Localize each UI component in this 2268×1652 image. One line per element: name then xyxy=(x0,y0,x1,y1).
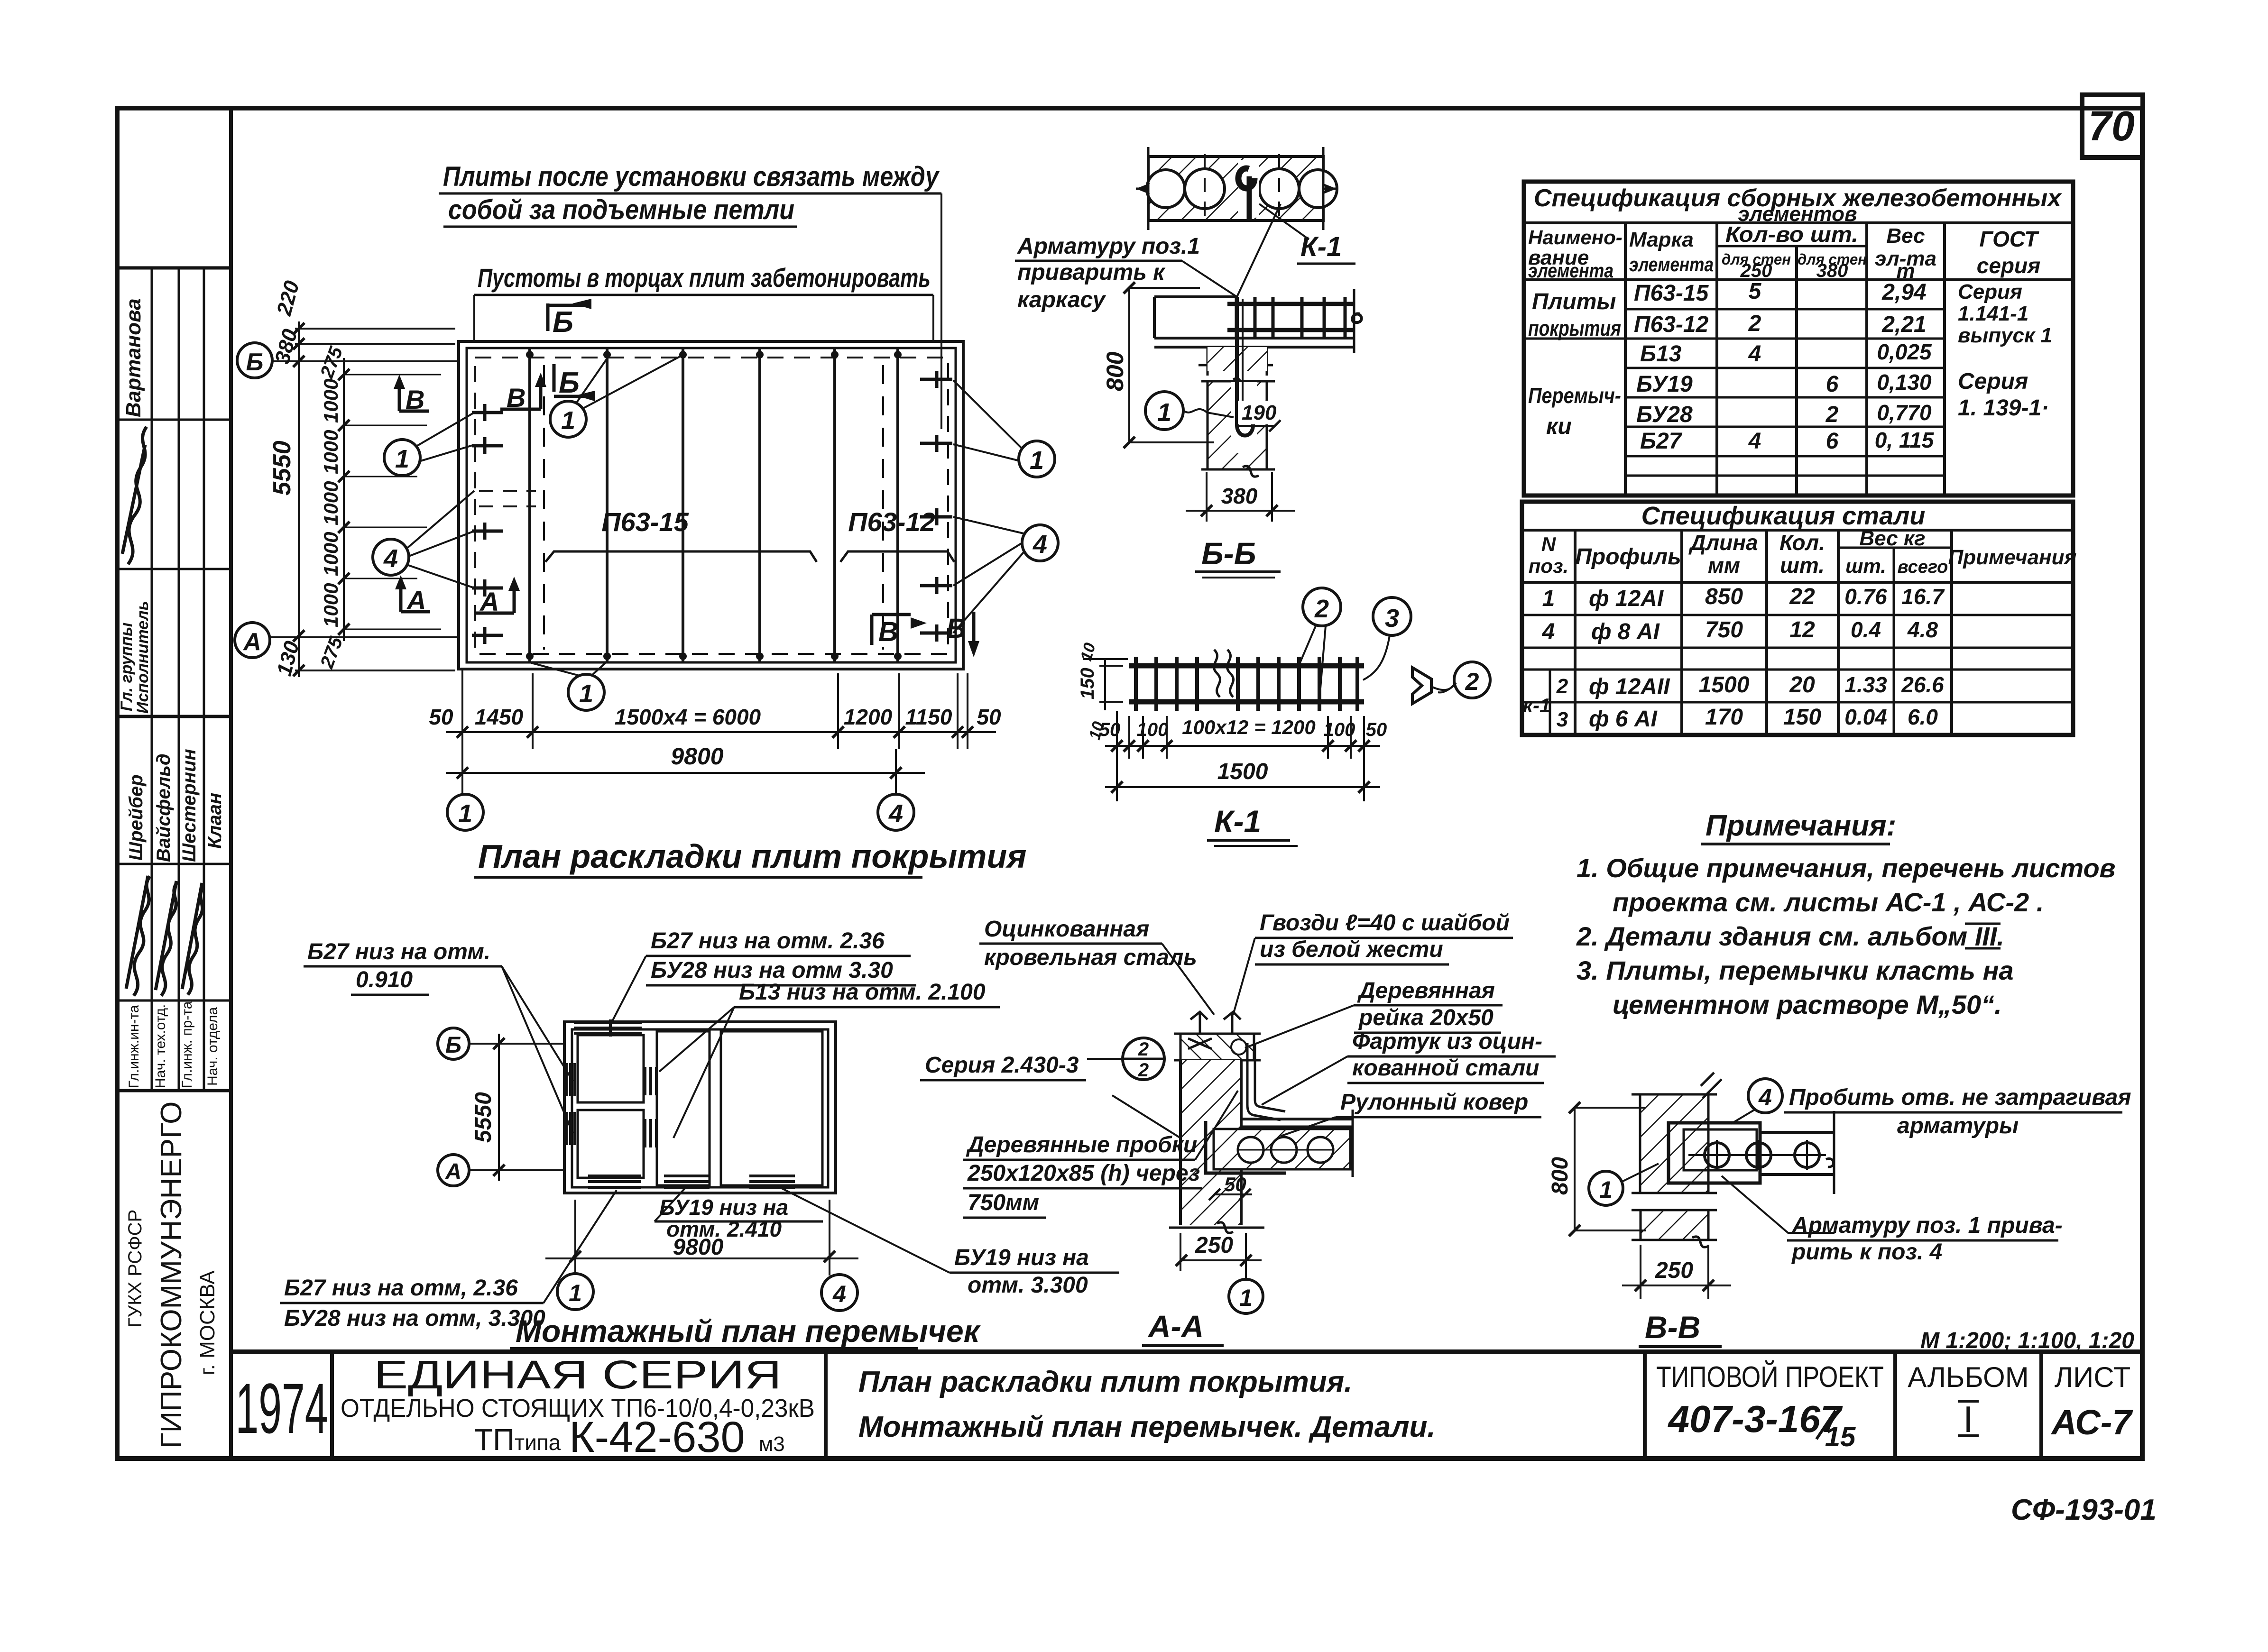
dim 5550 xyxy=(498,1034,500,1181)
wall under slab upper stub xyxy=(1199,347,1273,376)
svg-text:Б-Б: Б-Б xyxy=(1201,536,1256,571)
svg-text:Кол.: Кол. xyxy=(1779,530,1825,555)
svg-text:170: 170 xyxy=(1705,705,1743,730)
clip piece right xyxy=(1412,668,1431,704)
wall lower xyxy=(1641,1210,1708,1240)
svg-text:Примечания: Примечания xyxy=(1948,546,2077,569)
svg-text:Профиль: Профиль xyxy=(1575,544,1681,569)
svg-text:4: 4 xyxy=(888,799,903,828)
svg-text:Клаан: Клаан xyxy=(204,793,225,849)
svg-text:Пустоты в торцах плит забе: Пустоты в торцах плит забетонировать xyxy=(478,263,931,293)
svg-text:800: 800 xyxy=(1548,1157,1573,1195)
svg-text:Серия: Серия xyxy=(1958,369,2028,394)
document code xyxy=(2011,1494,2157,1526)
axis circle 4 bottom xyxy=(878,794,914,830)
text weld rebar pos1 xyxy=(1015,204,1281,312)
circle 1 leader xyxy=(1145,392,1183,430)
leader circle 3 xyxy=(1373,597,1411,635)
svg-text:4: 4 xyxy=(1758,1084,1772,1111)
svg-text:4: 4 xyxy=(1033,530,1047,559)
axis circle 1 bottom xyxy=(447,794,483,830)
stamp column divider xyxy=(229,108,233,1459)
slab label П63-12 xyxy=(840,507,954,562)
svg-text:1000: 1000 xyxy=(320,532,342,576)
section mark А left outer xyxy=(395,575,430,615)
svg-text:4: 4 xyxy=(832,1281,846,1307)
svg-text:АС-7: АС-7 xyxy=(2051,1403,2134,1442)
bottom dim chain xyxy=(429,669,1001,793)
svg-text:2: 2 xyxy=(1138,1039,1149,1060)
svg-text:1974: 1974 xyxy=(236,1368,328,1448)
svg-text:План раскладки плит покрыти: План раскладки плит покрытия xyxy=(478,838,1026,875)
svg-text:Б27 низ на отм. 2.36: Б27 низ на отм. 2.36 xyxy=(651,928,885,954)
svg-text:750мм: 750мм xyxy=(968,1190,1039,1215)
svg-text:Б27 низ на отм, 2.36: Б27 низ на отм, 2.36 xyxy=(284,1276,518,1301)
anchor hooks right edge xyxy=(920,371,952,642)
svg-text:1000: 1000 xyxy=(320,481,342,525)
svg-text:26.6: 26.6 xyxy=(1901,672,1944,697)
svg-text:поз.: поз. xyxy=(1529,555,1568,577)
svg-text:м3: м3 xyxy=(759,1432,785,1456)
svg-text:к-1: к-1 xyxy=(1523,694,1551,716)
svg-text:Нач. тех.отд.: Нач. тех.отд. xyxy=(153,1004,168,1088)
flashing L xyxy=(1247,1043,1285,1120)
svg-text:2: 2 xyxy=(1314,595,1329,623)
svg-text:План раскладки плит покрыти: План раскладки плит покрытия. xyxy=(858,1366,1352,1398)
svg-text:Б13: Б13 xyxy=(1640,341,1682,367)
svg-text:кованной стали: кованной стали xyxy=(1352,1055,1540,1081)
svg-text:ГОСТ: ГОСТ xyxy=(1980,227,2040,251)
svg-text:Б13 низ на отм. 2.100: Б13 низ на отм. 2.100 xyxy=(739,980,986,1005)
svg-text:1: 1 xyxy=(1030,446,1044,475)
svg-text:Спецификация стали: Спецификация стали xyxy=(1641,502,1926,530)
svg-text:5: 5 xyxy=(1749,279,1762,304)
svg-text:ф 12АII: ф 12АII xyxy=(1589,674,1670,699)
montage plan of lintels xyxy=(438,1019,981,1349)
svg-text:3: 3 xyxy=(1385,604,1399,633)
svg-text:элемента: элемента xyxy=(1629,253,1714,275)
title block xyxy=(231,1352,2142,1461)
svg-text:Монтажный план перемычек. Д: Монтажный план перемычек. Детали. xyxy=(858,1411,1436,1443)
sheet number box 70 xyxy=(2082,95,2143,157)
svg-text:Наимено-: Наимено- xyxy=(1528,226,1623,248)
K-1 label at B-B xyxy=(1259,204,1355,264)
specification table concrete elements xyxy=(1524,182,2073,496)
svg-text:250х120х85 (h) через: 250х120х85 (h) через xyxy=(967,1161,1200,1186)
left small dims 10 150 10 xyxy=(1104,659,1106,710)
svg-text:Оцинкованная: Оцинкованная xyxy=(984,917,1149,942)
svg-text:1: 1 xyxy=(1599,1176,1613,1203)
svg-text:АЛЬБОМ: АЛЬБОМ xyxy=(1908,1361,2028,1393)
row lines xyxy=(1625,308,1945,311)
svg-text:100х12 = 1200: 100х12 = 1200 xyxy=(1182,716,1315,738)
leader circle 4 right xyxy=(953,517,1058,633)
axis circles 1 4 xyxy=(557,1274,593,1310)
leader circle 1 left xyxy=(384,413,474,476)
break mark xyxy=(1214,650,1233,697)
svg-text:серия: серия xyxy=(1977,253,2040,278)
svg-text:150: 150 xyxy=(1783,705,1821,730)
svg-text:1. Общие примечания, перече: 1. Общие примечания, перечень листов xyxy=(1577,853,2116,883)
svg-text:Деревянная: Деревянная xyxy=(1357,978,1495,1003)
section mark В bottom right outer xyxy=(946,612,979,657)
svg-text:1. 139-1·: 1. 139-1· xyxy=(1958,395,2049,421)
svg-text:отм. 3.300: отм. 3.300 xyxy=(968,1273,1088,1298)
stamp table grid xyxy=(117,268,231,1091)
svg-text:0,770: 0,770 xyxy=(1877,400,1932,425)
svg-text:цементном растворе М„50“.: цементном растворе М„50“. xyxy=(1613,990,2002,1019)
A-A detail xyxy=(1087,1012,1353,1351)
section mark Б top xyxy=(548,299,591,339)
svg-text:2: 2 xyxy=(1465,668,1479,696)
svg-text:2: 2 xyxy=(1138,1060,1149,1081)
dim 1500 xyxy=(1105,786,1380,788)
svg-text:отм. 2.410: отм. 2.410 xyxy=(666,1217,782,1241)
section B-B slab plan band xyxy=(1136,147,1337,230)
svg-text:ф 12АI: ф 12АI xyxy=(1589,586,1664,611)
columns xyxy=(1574,530,1577,735)
axis circle 1 xyxy=(1229,1279,1263,1313)
V-V detail xyxy=(1548,1073,2131,1352)
svg-text:0.04: 0.04 xyxy=(1844,705,1887,729)
svg-text:Б27: Б27 xyxy=(1640,429,1683,454)
A-A labels xyxy=(920,910,1556,1218)
svg-text:выпуск 1: выпуск 1 xyxy=(1958,324,2052,347)
svg-text:ки: ки xyxy=(1546,414,1572,439)
svg-text:каркасу: каркасу xyxy=(1017,287,1106,312)
dashed slab mark lines xyxy=(543,365,545,650)
svg-text:собой за подъемные петли: собой за подъемные петли xyxy=(448,194,794,225)
svg-text:22: 22 xyxy=(1789,584,1815,609)
section mark В bottom right inner xyxy=(872,615,927,647)
svg-text:Исполнитель: Исполнитель xyxy=(134,601,152,714)
wall notch step xyxy=(1206,1121,1286,1173)
svg-text:Нач. отдела: Нач. отдела xyxy=(205,1007,221,1086)
svg-text:П63-12: П63-12 xyxy=(1634,312,1709,337)
rows xyxy=(1522,614,2073,616)
svg-text:1: 1 xyxy=(1157,398,1171,427)
svg-text:250: 250 xyxy=(1740,260,1772,281)
leader circle 1 right xyxy=(953,380,1055,477)
svg-text:П63-12: П63-12 xyxy=(848,507,935,537)
svg-text:4: 4 xyxy=(1748,341,1761,367)
leader circle 1 bottom xyxy=(531,661,607,710)
svg-text:1: 1 xyxy=(1542,586,1555,611)
axis circle Б xyxy=(237,343,459,378)
dim 250 xyxy=(1640,1245,1641,1299)
svg-text:12: 12 xyxy=(1789,617,1815,642)
svg-text:0.910: 0.910 xyxy=(356,967,413,992)
svg-text:50: 50 xyxy=(429,705,453,729)
svg-text:А: А xyxy=(445,1159,462,1184)
K-1 split xyxy=(1549,670,1551,735)
anchor pocket white strip xyxy=(1231,382,1257,453)
svg-text:380: 380 xyxy=(1221,484,1258,508)
svg-text:250: 250 xyxy=(1655,1258,1693,1283)
svg-text:Серия 2.430-3: Серия 2.430-3 xyxy=(925,1053,1079,1078)
svg-text:БУ28: БУ28 xyxy=(1636,402,1693,427)
svg-text:15: 15 xyxy=(1825,1422,1856,1452)
plan title xyxy=(474,838,1026,877)
svg-text:1500х4 = 6000: 1500х4 = 6000 xyxy=(615,705,761,729)
svg-text:Вайсфельд: Вайсфельд xyxy=(153,753,174,862)
svg-text:всего: всего xyxy=(1898,557,1948,577)
svg-text:Монтажный план перемычек: Монтажный план перемычек xyxy=(516,1313,981,1349)
svg-text:70: 70 xyxy=(2088,102,2135,149)
svg-text:К-42-630: К-42-630 xyxy=(569,1413,745,1461)
svg-text:Б: Б xyxy=(559,367,580,399)
axis circles xyxy=(438,1028,469,1059)
svg-text:250: 250 xyxy=(1195,1233,1233,1258)
leader circle 2 right xyxy=(1454,662,1490,698)
svg-text:50: 50 xyxy=(1099,719,1121,740)
slab band hatched with cores xyxy=(1214,1129,1350,1169)
slab body xyxy=(1154,297,1354,347)
svg-text:190: 190 xyxy=(1242,401,1277,424)
svg-text:Плиты после установки связа: Плиты после установки связать между xyxy=(443,161,940,192)
section mark Б inner xyxy=(554,364,595,401)
svg-text:покрытия: покрытия xyxy=(1528,316,1621,340)
axis circle А xyxy=(235,623,459,658)
svg-text:50: 50 xyxy=(977,705,1001,729)
svg-text:СФ-193-01: СФ-193-01 xyxy=(2011,1494,2157,1526)
svg-text:А: А xyxy=(242,628,261,656)
left dim chain inner 1000s xyxy=(316,344,441,671)
svg-text:100: 100 xyxy=(1324,719,1355,740)
svg-text:2,21: 2,21 xyxy=(1881,312,1926,337)
svg-text:3: 3 xyxy=(1557,708,1568,731)
svg-text:850: 850 xyxy=(1705,584,1743,609)
dashed inner boundary xyxy=(475,358,948,654)
svg-text:1000: 1000 xyxy=(320,379,342,423)
dim 800 xyxy=(1574,1108,1576,1230)
note text voids concrete xyxy=(474,263,933,340)
svg-text:элемента: элемента xyxy=(1528,259,1613,282)
specification table steel xyxy=(1522,502,2076,735)
svg-text:Марка: Марка xyxy=(1629,228,1694,251)
bottom dim chain 50 100 1200 100 50 xyxy=(1117,711,1364,801)
svg-text:Гвозди ℓ=40 с шайбой: Гвозди ℓ=40 с шайбой xyxy=(1260,910,1510,936)
svg-text:шт.: шт. xyxy=(1780,553,1825,578)
svg-text:6.0: 6.0 xyxy=(1908,705,1938,729)
svg-text:4: 4 xyxy=(1748,429,1761,454)
svg-text:ЕДИНАЯ СЕРИЯ: ЕДИНАЯ СЕРИЯ xyxy=(374,1352,782,1397)
svg-text:5550: 5550 xyxy=(268,441,296,496)
svg-text:50: 50 xyxy=(1366,719,1387,740)
svg-text:БУ19: БУ19 xyxy=(1636,372,1693,397)
svg-text:750: 750 xyxy=(1705,617,1743,642)
svg-text:М 1:200; 1:100, 1:20: М 1:200; 1:100, 1:20 xyxy=(1920,1328,2134,1353)
svg-text:Арматуру поз. 1 прива-: Арматуру поз. 1 прива- xyxy=(1791,1213,2063,1238)
svg-text:В-В: В-В xyxy=(1645,1310,1700,1345)
leader circle 1 top xyxy=(550,356,682,437)
lintel bars left wall verticals xyxy=(566,1063,575,1145)
svg-text:0,130: 0,130 xyxy=(1877,370,1932,395)
svg-text:4.8: 4.8 xyxy=(1907,617,1938,642)
stamp rotated names xyxy=(118,298,225,1449)
svg-text:1150: 1150 xyxy=(905,705,952,729)
svg-text:3. Плиты, перемычки класть: 3. Плиты, перемычки класть на xyxy=(1577,955,2014,985)
slab divider lines xyxy=(530,348,898,662)
svg-text:Вартанова: Вартанова xyxy=(122,298,145,417)
svg-text:2: 2 xyxy=(1825,402,1839,427)
scale note xyxy=(1920,1328,2134,1353)
wall upper xyxy=(1640,1094,1708,1193)
svg-text:2. Детали здания см. альбо: 2. Детали здания см. альбом III. xyxy=(1576,921,2004,951)
svg-text:ГУКХ РСФСР: ГУКХ РСФСР xyxy=(125,1210,146,1328)
svg-text:1.141-1: 1.141-1 xyxy=(1958,302,2028,325)
svg-text:800: 800 xyxy=(1102,351,1128,391)
section mark В left outer xyxy=(394,375,429,414)
svg-text:Рулонный ковер: Рулонный ковер xyxy=(1340,1090,1528,1115)
svg-text:рить к поз. 4: рить к поз. 4 xyxy=(1791,1239,1942,1265)
svg-text:Вес: Вес xyxy=(1886,224,1925,248)
dim 9800 bottom xyxy=(574,1200,576,1274)
notes xyxy=(1576,809,2116,1019)
inner openings xyxy=(578,1035,644,1102)
svg-text:1: 1 xyxy=(1239,1285,1253,1311)
svg-text:1500: 1500 xyxy=(1217,759,1268,784)
svg-text:50: 50 xyxy=(1224,1173,1246,1195)
svg-text:А-А: А-А xyxy=(1147,1309,1204,1344)
sheet frame xyxy=(117,108,2142,1459)
svg-text:В: В xyxy=(878,616,898,647)
anchor hooks left edge xyxy=(472,404,503,644)
slab label П63-15 xyxy=(545,507,817,562)
dim 800 xyxy=(1128,288,1130,442)
dim 380 xyxy=(1206,472,1208,522)
svg-text:9800: 9800 xyxy=(671,743,723,770)
svg-text:Гл.инж. пр-та: Гл.инж. пр-та xyxy=(179,1001,195,1088)
section mark В left inner xyxy=(500,373,546,413)
K-1 detail xyxy=(1077,588,1490,846)
svg-text:2,94: 2,94 xyxy=(1881,280,1926,305)
svg-text:Кол-во шт.: Кол-во шт. xyxy=(1725,222,1858,247)
parapet cap xyxy=(1180,1034,1254,1060)
lower wall xyxy=(1169,1169,1264,1228)
svg-text:I: I xyxy=(1963,1398,1973,1440)
series circle 2/2 xyxy=(1123,1038,1164,1080)
svg-text:4: 4 xyxy=(1542,619,1555,644)
wall inner rect xyxy=(467,348,956,662)
wall body xyxy=(1180,1060,1241,1225)
svg-text:БУ19 низ на: БУ19 низ на xyxy=(659,1195,788,1220)
left dim chain outer xyxy=(268,278,455,678)
leader circle 4 left xyxy=(373,491,474,588)
svg-text:1: 1 xyxy=(395,445,409,473)
svg-text:20: 20 xyxy=(1789,672,1815,698)
svg-text:проекта см. листы АС-1 , АС: проекта см. листы АС-1 , АС-2 . xyxy=(1613,887,2044,917)
circle 1 xyxy=(1589,1171,1623,1205)
ladder top/bottom bars xyxy=(1227,302,1354,306)
section B-B lower detail xyxy=(1102,282,1362,578)
svg-text:16.7: 16.7 xyxy=(1901,584,1945,609)
svg-text:5550: 5550 xyxy=(471,1092,496,1143)
svg-text:1.33: 1.33 xyxy=(1844,672,1887,697)
svg-text:П63-15: П63-15 xyxy=(1634,281,1709,306)
svg-text:1450: 1450 xyxy=(475,705,524,729)
svg-text:2: 2 xyxy=(1556,675,1568,698)
svg-text:Плиты: Плиты xyxy=(1532,289,1616,314)
svg-text:ф 6 АI: ф 6 АI xyxy=(1589,707,1658,732)
svg-text:Б27 низ на отм.: Б27 низ на отм. xyxy=(307,939,490,964)
ladder rungs xyxy=(1236,297,1345,338)
svg-text:Серия: Серия xyxy=(1958,280,2022,303)
svg-text:из белой жести: из белой жести xyxy=(1260,937,1443,962)
svg-text:380: 380 xyxy=(1816,260,1848,281)
svg-text:К-1: К-1 xyxy=(1214,804,1261,839)
190 dim xyxy=(1238,401,1278,424)
svg-text:ТИПОВОЙ ПРОЕКТ: ТИПОВОЙ ПРОЕКТ xyxy=(1656,1360,1884,1394)
svg-text:4: 4 xyxy=(383,544,398,573)
svg-text:шт.: шт. xyxy=(1845,555,1886,577)
svg-text:типа: типа xyxy=(515,1430,561,1455)
header sub line kol-vo xyxy=(1717,245,1867,248)
beam with holes xyxy=(1669,1123,1760,1183)
svg-text:6: 6 xyxy=(1826,429,1839,454)
svg-text:Б: Б xyxy=(246,349,264,376)
svg-text:407-3-167: 407-3-167 xyxy=(1668,1398,1843,1440)
svg-text:1: 1 xyxy=(458,799,472,828)
main roof plan xyxy=(459,341,963,669)
bottom dim 9800 xyxy=(446,743,925,793)
svg-text:БУ19 низ на: БУ19 низ на xyxy=(954,1245,1089,1270)
anchor rod down with hook xyxy=(1237,297,1253,436)
svg-text:арматуры: арматуры xyxy=(1897,1113,2019,1138)
svg-text:Перемыч-: Перемыч- xyxy=(1528,383,1621,408)
svg-text:0.76: 0.76 xyxy=(1844,584,1887,609)
svg-text:1: 1 xyxy=(579,679,593,708)
wall outer rect xyxy=(459,341,963,669)
svg-text:Шестернин: Шестернин xyxy=(179,749,200,862)
lintel bars top-left xyxy=(574,1019,642,1037)
svg-text:Гл. группы: Гл. группы xyxy=(118,623,136,711)
svg-text:г. МОСКВА: г. МОСКВА xyxy=(196,1270,219,1375)
svg-text:0, 115: 0, 115 xyxy=(1875,428,1935,452)
montage plan labels xyxy=(280,928,1119,1331)
svg-text:Шрейбер: Шрейбер xyxy=(126,774,147,861)
svg-text:1000: 1000 xyxy=(320,430,342,474)
svg-text:П63-15: П63-15 xyxy=(601,507,689,537)
svg-text:Б: Б xyxy=(445,1033,461,1058)
circle 4 xyxy=(1748,1079,1782,1113)
ladder bars xyxy=(1129,663,1364,669)
svg-text:1200: 1200 xyxy=(844,705,893,729)
svg-text:1: 1 xyxy=(569,1280,582,1306)
svg-text:приварить к: приварить к xyxy=(1017,260,1166,285)
svg-text:6: 6 xyxy=(1826,372,1839,397)
svg-text:Примечания:: Примечания: xyxy=(1706,809,1896,842)
svg-text:ТП: ТП xyxy=(474,1423,515,1457)
svg-text:1500: 1500 xyxy=(1699,672,1750,698)
svg-text:Длина: Длина xyxy=(1688,530,1758,555)
lintel bars middle verticals xyxy=(645,1067,656,1147)
svg-text:ГИПРОКОММУНЭНЕРГО: ГИПРОКОММУНЭНЕРГО xyxy=(155,1101,188,1449)
wall lower part xyxy=(1208,381,1267,469)
note text plates tie xyxy=(439,161,941,429)
svg-text:Б: Б xyxy=(553,306,573,339)
svg-text:БУ28 низ на отм, 3.300: БУ28 низ на отм, 3.300 xyxy=(284,1306,545,1331)
svg-text:2: 2 xyxy=(1748,311,1761,336)
svg-text:К-1: К-1 xyxy=(1300,231,1342,262)
svg-text:ЛИСТ: ЛИСТ xyxy=(2055,1361,2131,1393)
svg-text:ф 8 АI: ф 8 АI xyxy=(1591,619,1660,644)
svg-text:0,025: 0,025 xyxy=(1877,340,1932,364)
svg-text:N: N xyxy=(1541,533,1557,555)
leader circle 2 xyxy=(1303,588,1341,626)
column lines xyxy=(1624,223,1627,496)
svg-text:Деревянные пробки: Деревянные пробки xyxy=(966,1132,1197,1157)
